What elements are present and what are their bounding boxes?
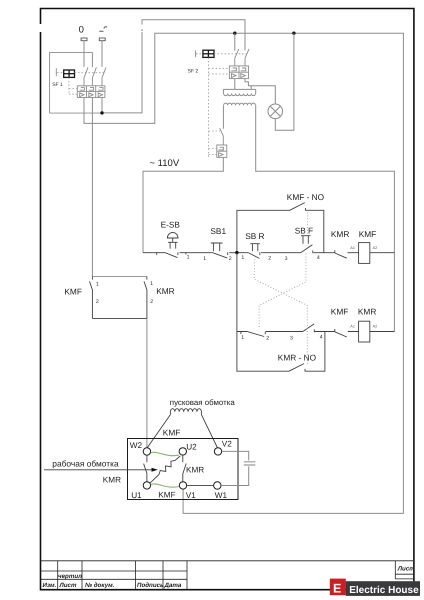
svg-text:V2: V2	[222, 439, 232, 448]
svg-text:чертил: чертил	[58, 573, 82, 580]
node 0 (supply terminal 0)	[79, 24, 87, 40]
Electric House logo	[330, 579, 420, 596]
starting winding coil	[170, 409, 201, 415]
svg-text:1: 1	[96, 281, 99, 287]
terminal labels	[130, 439, 232, 499]
wire: power contacts to motor W2	[146, 318, 148, 447]
wire: V1 to W1	[187, 484, 214, 486]
svg-text:4: 4	[317, 255, 320, 261]
contact 3-4 (reverse branch NO)	[303, 324, 315, 332]
wire: main control line segments y=252.7	[143, 252, 394, 254]
svg-text:Подпись: Подпись	[137, 582, 164, 589]
svg-text:A1: A1	[350, 246, 355, 250]
svg-text:Лист: Лист	[59, 582, 77, 589]
dotted mechanical linkages	[254, 213, 307, 366]
breaker SF1 linkage dashes	[57, 73, 104, 95]
breaker SF2 switch blades	[235, 49, 249, 66]
button SB R (NC)	[249, 244, 260, 259]
terminal V1	[179, 482, 186, 489]
terminal W2	[143, 448, 150, 455]
working winding (zigzag U2-U1)	[150, 456, 180, 483]
svg-text:2: 2	[266, 336, 269, 342]
svg-text:U1: U1	[131, 491, 142, 500]
svg-text:KMR - NO: KMR - NO	[278, 352, 317, 362]
transformer T1 secondary	[224, 103, 256, 105]
svg-text:W1: W1	[215, 491, 228, 500]
svg-text:KMF: KMF	[163, 427, 181, 437]
breaker SF1 switch blades	[84, 67, 106, 86]
wire: drop to reverse branch and KMR-NO bypass	[237, 253, 325, 372]
leader arrow to working winding	[44, 469, 152, 471]
svg-text:A1: A1	[350, 324, 355, 328]
junction: bus B to SF2 left pole	[233, 32, 236, 35]
emergency stop E-SB	[157, 232, 186, 257]
contact KMR: W2 to U1	[144, 455, 147, 481]
svg-text:KMF: KMF	[359, 229, 377, 239]
svg-text:KMR: KMR	[103, 476, 121, 485]
wire: SF2 left pole from bus B	[234, 33, 236, 50]
junction: main line node	[235, 251, 238, 254]
capacitor C (between V2 and W1)	[221, 451, 249, 485]
linkage SB R to reverse 3-4 and KMR-NO	[254, 260, 307, 366]
svg-text:A2: A2	[373, 246, 378, 250]
svg-text:SF 2: SF 2	[188, 68, 199, 74]
svg-text:KMR: KMR	[156, 286, 174, 296]
terminal U2	[179, 448, 186, 455]
svg-text:E-SB: E-SB	[161, 220, 181, 230]
wire: lamp bottom return to bus B	[275, 33, 294, 130]
seam dot on line A	[141, 29, 143, 31]
wire: coil ends to W2 and V2	[147, 415, 217, 448]
svg-text:1: 1	[187, 255, 190, 261]
svg-text:Лист: Лист	[397, 566, 415, 573]
junction: SF1 pole3 to line A	[100, 111, 103, 114]
terminal U1	[143, 482, 150, 489]
svg-text:2: 2	[150, 299, 153, 305]
green jumper KMF: W2 to U2	[151, 452, 179, 455]
svg-text:пусковая обмотка: пусковая обмотка	[170, 398, 236, 407]
terminal V2	[214, 448, 221, 455]
svg-text:2: 2	[229, 256, 232, 262]
breaker SF2 thermal block	[229, 66, 248, 79]
svg-text:3: 3	[290, 336, 293, 342]
breaker SF2 linkage dashes	[196, 54, 247, 157]
svg-text:2: 2	[96, 299, 99, 305]
wire: reverse branch line y=331.5	[237, 331, 395, 333]
wire: aux block to 110V left rail	[143, 157, 223, 252]
control labels	[64, 192, 376, 362]
svg-text:Изм.: Изм.	[43, 582, 57, 589]
SF1 box bottom / wire overlap	[50, 112, 102, 114]
svg-text:Electric House: Electric House	[349, 585, 419, 596]
transformer T1 primary	[223, 89, 255, 95]
breaker SF1 thermal block	[77, 86, 105, 98]
green jumper KMF: U1 to V1	[151, 484, 179, 487]
wire: jog down to transformer primary right	[250, 86, 252, 90]
title block top line	[41, 560, 414, 562]
breaker SF1 manual actuator tick	[55, 68, 57, 76]
linkage SB F to KMF-NO	[307, 213, 309, 236]
svg-text:SB F: SB F	[295, 225, 313, 235]
CONTROL CIRCUIT	[143, 203, 394, 372]
contact 1-2 (reverse branch NC)	[241, 332, 265, 337]
power contact KMR (motor, rev)	[144, 276, 147, 318]
svg-text:U2: U2	[186, 443, 197, 452]
contact KMR NC (interlock, fwd branch)	[335, 250, 347, 258]
title block table lines	[41, 561, 414, 590]
node phase (supply terminal, faint mark)	[99, 27, 107, 41]
wire: SF1 pole3 output to line A feeding SF2 right pole	[102, 20, 245, 113]
svg-text:KMR: KMR	[358, 307, 376, 317]
svg-text:SB1: SB1	[210, 226, 226, 236]
svg-text:1: 1	[241, 255, 244, 261]
terminal W1	[214, 482, 221, 489]
svg-text:3: 3	[285, 256, 288, 262]
coil KMF	[359, 243, 370, 264]
breaker SF2 release cross-box	[203, 50, 214, 57]
wire: phase terminal down to SF1 pole 3	[101, 41, 103, 67]
svg-text:Дата: Дата	[164, 582, 182, 589]
contact KMF-NO bypass branch	[237, 203, 324, 253]
contact KMF NC (interlock, rev branch)	[335, 329, 347, 337]
svg-text:KMR: KMR	[186, 465, 204, 474]
aux fuse block	[217, 145, 227, 157]
wire: SF1 pole1 output to bus B (motor neutral loop)	[84, 33, 403, 513]
svg-text:KMF: KMF	[331, 307, 349, 317]
wire: SF2 left pole to transformer primary	[234, 79, 236, 90]
terminal box rectangle	[128, 439, 239, 500]
breaker SF1 release cross-box	[64, 70, 75, 77]
wire: secondary right to control right rail	[256, 105, 395, 331]
svg-text:KMF: KMF	[158, 491, 175, 500]
svg-text:V1: V1	[186, 491, 196, 500]
wire: SF1 pole2 output down to KMF/KMR power contacts	[91, 98, 93, 277]
svg-text:рабочая обмотка: рабочая обмотка	[52, 458, 119, 468]
terminal numbers, control	[96, 246, 377, 342]
wire: SF1 pole 2 drop from box top	[91, 52, 93, 67]
svg-text:1: 1	[150, 281, 153, 287]
svg-text:SB R: SB R	[245, 231, 264, 241]
linkage SB F to reverse 1-2	[259, 254, 306, 330]
wire: SF2 right pole jog, lamp feed	[245, 79, 275, 104]
svg-text:4: 4	[320, 335, 323, 341]
svg-text:KMF: KMF	[64, 287, 82, 297]
contact KMR: U2 to V1	[183, 455, 186, 481]
svg-text:2: 2	[268, 256, 271, 262]
svg-text:A2: A2	[373, 324, 378, 328]
button SB F (NO)	[301, 236, 313, 254]
svg-text:KMF - NO: KMF - NO	[287, 192, 325, 202]
svg-text:№ докум.: № докум.	[85, 582, 115, 589]
svg-text:1: 1	[203, 256, 206, 262]
junction: bus B to lamp return	[292, 32, 295, 35]
svg-text:~ 110V: ~ 110V	[150, 158, 180, 169]
svg-text:0: 0	[79, 24, 84, 35]
breaker SF2 manual actuator tick	[195, 50, 197, 57]
lamp HL (indicator)	[268, 104, 283, 119]
svg-text:KMR: KMR	[331, 229, 349, 239]
SF1 enclosure box	[50, 52, 93, 113]
coil KMR	[359, 321, 370, 342]
svg-text:E: E	[333, 582, 341, 596]
power contact KMF (motor, fwd)	[90, 276, 148, 318]
svg-text:W2: W2	[130, 441, 143, 450]
wire: secondary left down to aux protection	[222, 105, 224, 128]
aux switch blade (secondary protection)	[220, 128, 224, 145]
svg-text:SF 1: SF 1	[52, 82, 63, 88]
button SB1	[211, 243, 228, 258]
wire: terminal 0 down to SF1 pole 1	[83, 41, 85, 67]
svg-text:1: 1	[241, 335, 244, 341]
